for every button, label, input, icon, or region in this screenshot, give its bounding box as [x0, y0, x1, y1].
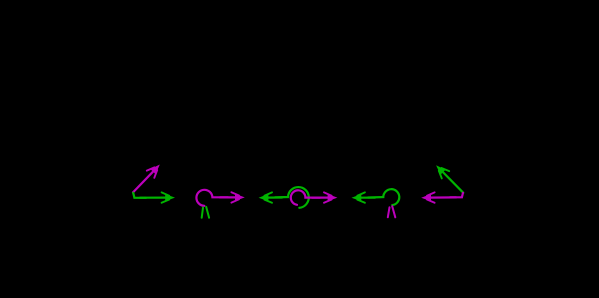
- magenta inner loop with arrow right: [291, 190, 338, 205]
- green arrow up-left (right pair): [436, 165, 463, 193]
- green arrowhead legs below loop: [202, 207, 209, 218]
- green loop with arrow left: [352, 189, 400, 205]
- magenta arrowhead legs below loop: [388, 206, 396, 217]
- magenta loop with arrow right: [196, 190, 244, 206]
- green outer loop with arrow left: [259, 187, 309, 208]
- green arrow right (left pair): [133, 192, 175, 202]
- magenta arrow up-right (left pair): [133, 165, 160, 193]
- magenta arrow left (right pair): [421, 192, 463, 202]
